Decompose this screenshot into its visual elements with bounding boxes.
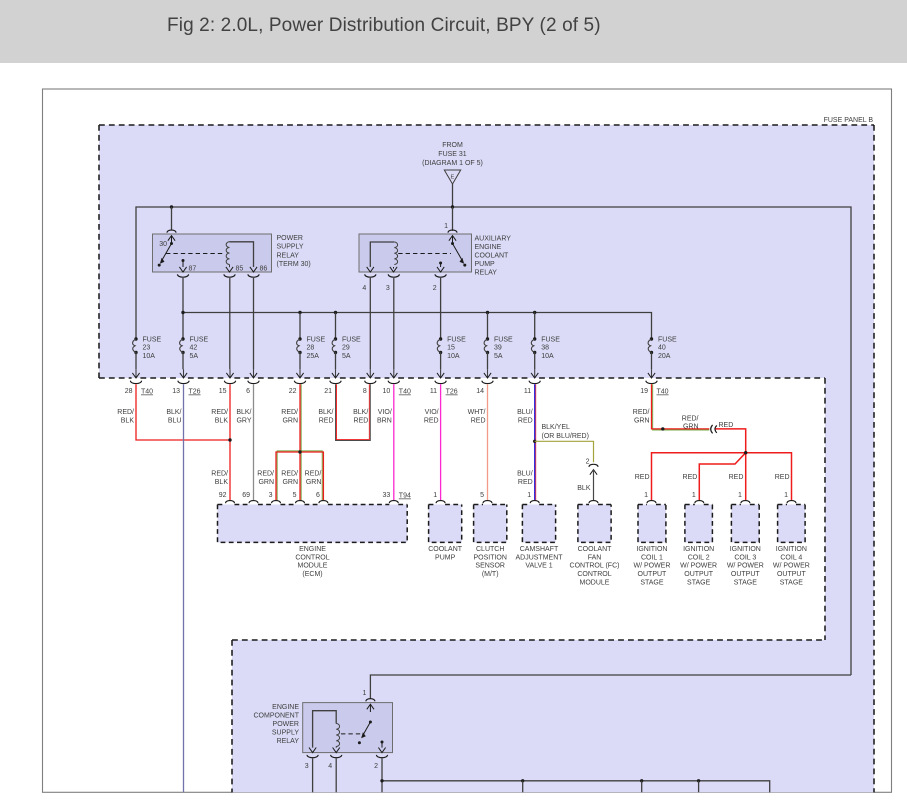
svg-text:BLU/: BLU/ xyxy=(517,409,533,416)
wire relay86 to exit 6 xyxy=(253,278,255,369)
wire BLK/RED pins 21-8 loop xyxy=(336,384,369,439)
svg-text:ENGINE: ENGINE xyxy=(272,704,299,711)
svg-text:11: 11 xyxy=(524,388,531,395)
node splice dot xyxy=(661,427,664,430)
svg-text:MODULE: MODULE xyxy=(580,580,610,587)
relay K1 dashed actuator link xyxy=(166,253,224,255)
svg-text:COIL 2: COIL 2 xyxy=(688,554,710,561)
wire VIO/RED pin 11 to coolant pump xyxy=(440,384,442,500)
svg-text:IGNITION: IGNITION xyxy=(776,546,807,553)
fuse F28 25A xyxy=(298,337,301,340)
svg-text:10A: 10A xyxy=(541,353,554,360)
svg-text:30: 30 xyxy=(159,241,167,248)
svg-text:GRN: GRN xyxy=(306,479,322,486)
node bus junction dot pin30 xyxy=(170,205,173,208)
connector exit arrow x300 xyxy=(299,369,301,377)
wire drop lower c xyxy=(698,781,700,792)
svg-text:8: 8 xyxy=(363,388,367,395)
ECM engine control module xyxy=(218,505,408,543)
svg-text:RED: RED xyxy=(518,417,533,424)
svg-text:RELAY: RELAY xyxy=(277,738,300,745)
connector exit arc x253.5 xyxy=(248,381,259,384)
connector exit arrow x183.5 xyxy=(183,369,185,377)
svg-text:BLK/: BLK/ xyxy=(353,409,368,416)
ignition coil 1 xyxy=(638,505,666,543)
wire BLK/GRY pin 6 to ECM 69 xyxy=(253,384,255,500)
svg-text:(DIAGRAM 1 OF 5): (DIAGRAM 1 OF 5) xyxy=(422,160,483,167)
relay K3 switch arm xyxy=(369,721,372,724)
svg-text:RED: RED xyxy=(635,474,650,481)
supply triangle E xyxy=(444,170,460,184)
svg-text:5: 5 xyxy=(480,492,484,499)
node junction 87 bus xyxy=(181,311,184,314)
svg-text:CLUTCH: CLUTCH xyxy=(476,546,504,553)
svg-text:RED/: RED/ xyxy=(682,416,699,423)
connector exit arc x651.5 xyxy=(646,381,657,384)
wire relay87 to fuse 42 xyxy=(182,278,184,339)
svg-text:OUTPUT: OUTPUT xyxy=(638,571,668,578)
relay K1 pin 30 connector xyxy=(167,230,176,233)
wire drop lower b xyxy=(641,781,643,792)
wire bus to lower relay xyxy=(370,675,851,699)
svg-text:20A: 20A xyxy=(658,353,671,360)
svg-text:5A: 5A xyxy=(190,353,199,360)
svg-text:42: 42 xyxy=(190,345,198,352)
svg-text:BLU/: BLU/ xyxy=(517,471,533,478)
wire fuse F28 to panel edge xyxy=(299,353,301,370)
wire RED to distribution node xyxy=(716,429,746,453)
svg-text:5: 5 xyxy=(293,492,297,499)
svg-text:STAGE: STAGE xyxy=(640,580,664,587)
svg-text:BLK: BLK xyxy=(577,485,591,492)
wire triangle to bus xyxy=(452,184,454,207)
svg-text:RED/: RED/ xyxy=(211,471,228,478)
svg-text:GRN: GRN xyxy=(282,417,298,424)
svg-text:39: 39 xyxy=(494,345,502,352)
svg-text:RED: RED xyxy=(424,417,439,424)
coolant pump module xyxy=(429,505,462,543)
svg-text:5A: 5A xyxy=(342,353,351,360)
svg-text:10A: 10A xyxy=(143,353,156,360)
wire drop fuse 28 xyxy=(299,313,301,340)
svg-text:85: 85 xyxy=(236,266,244,273)
wire RED/BLK pin 15 to ECM 92 xyxy=(229,384,231,500)
relay K1 pin 85 arrow xyxy=(229,265,231,268)
relay K1 pin 87 connector xyxy=(177,274,188,277)
svg-text:SUPPLY: SUPPLY xyxy=(277,244,304,251)
svg-text:POSITION: POSITION xyxy=(473,554,506,561)
svg-text:11: 11 xyxy=(430,388,437,395)
wire fuse F15 to panel edge xyxy=(440,353,442,370)
svg-text:RED: RED xyxy=(719,422,734,429)
wire relay K2 pin2 to fuse 15 xyxy=(440,278,442,339)
svg-text:1: 1 xyxy=(738,492,742,499)
svg-text:IGNITION: IGNITION xyxy=(636,546,667,553)
wire RED to ignition coil 1 xyxy=(652,453,746,501)
svg-text:3: 3 xyxy=(305,763,309,770)
svg-text:STAGE: STAGE xyxy=(687,580,711,587)
svg-text:FROM: FROM xyxy=(442,142,463,149)
svg-text:SUPPLY: SUPPLY xyxy=(272,730,299,737)
svg-text:AUXILIARY: AUXILIARY xyxy=(475,235,512,242)
svg-text:FUSE 31: FUSE 31 xyxy=(438,151,467,158)
relay K1 coil xyxy=(226,242,229,265)
svg-text:IGNITION: IGNITION xyxy=(730,546,761,553)
svg-text:Fig 2: 2.0L, Power Distributio: Fig 2: 2.0L, Power Distribution Circuit,… xyxy=(167,15,601,36)
connector exit arc x487.5 xyxy=(482,381,493,384)
svg-text:COMPONENT: COMPONENT xyxy=(254,712,300,719)
svg-text:GRN: GRN xyxy=(282,479,298,486)
wire drop lower a xyxy=(522,781,524,792)
relay K2 coil top wire to pin 4 xyxy=(370,242,394,267)
relay K2 aux engine coolant pump relay box xyxy=(359,234,472,272)
connector exit arc x393.8 xyxy=(388,381,399,384)
svg-text:CONTROL: CONTROL xyxy=(295,554,329,561)
wire fuse F38 to panel edge xyxy=(534,353,536,370)
svg-text:T26: T26 xyxy=(446,389,458,396)
relay K3 pin 2 stub xyxy=(381,741,384,744)
wire RED/BLK pin 28 xyxy=(136,384,229,440)
node junction lower bus b xyxy=(640,779,643,782)
svg-text:5A: 5A xyxy=(494,353,503,360)
wire fuse F23 to panel edge xyxy=(135,353,137,370)
node junction RED/GRN splice xyxy=(298,450,301,453)
svg-text:BLK: BLK xyxy=(215,417,229,424)
connector exit arc x230 xyxy=(224,381,235,384)
svg-text:4: 4 xyxy=(328,763,332,770)
wire WHT/RED pin 14 to clutch sensor xyxy=(487,384,489,500)
header bar xyxy=(0,0,907,63)
svg-text:GRY: GRY xyxy=(236,417,251,424)
relay K2 pin 2 stub xyxy=(439,262,442,265)
svg-text:33: 33 xyxy=(383,492,391,499)
relay K2 switch arm xyxy=(451,242,454,245)
svg-text:COOLANT: COOLANT xyxy=(428,546,463,553)
svg-text:19: 19 xyxy=(640,388,648,395)
svg-text:COIL 3: COIL 3 xyxy=(734,554,756,561)
svg-text:BLK: BLK xyxy=(215,479,229,486)
fuse F23 10A xyxy=(134,337,137,340)
svg-text:RED/: RED/ xyxy=(257,471,274,478)
relay K2 pin 4 arrow xyxy=(367,267,374,272)
svg-text:VIO/: VIO/ xyxy=(425,409,439,416)
relay K3 pin 2 connector xyxy=(376,755,387,758)
svg-text:W/ POWER: W/ POWER xyxy=(773,563,810,570)
wire K3 pin 4 down xyxy=(335,759,337,793)
relay K1 pin 86 arrow xyxy=(250,267,257,272)
svg-text:BLK: BLK xyxy=(121,417,135,424)
svg-text:COOLANT: COOLANT xyxy=(578,546,613,553)
fuse panel B dashed outline left xyxy=(98,125,100,378)
svg-text:BLK/YEL: BLK/YEL xyxy=(542,424,571,431)
node junction RED/BLK xyxy=(228,438,231,441)
svg-text:GRN: GRN xyxy=(258,479,274,486)
wire RED to ignition coil 3 xyxy=(745,453,747,501)
svg-text:FUSE: FUSE xyxy=(658,337,677,344)
svg-text:RED: RED xyxy=(471,417,486,424)
svg-text:40: 40 xyxy=(658,345,666,352)
relay K2 pin 4 connector xyxy=(365,274,376,277)
svg-text:RELAY: RELAY xyxy=(475,270,498,277)
svg-text:10A: 10A xyxy=(447,353,460,360)
relay K3 coil xyxy=(336,724,339,747)
svg-text:1: 1 xyxy=(644,492,648,499)
connector exit arc x370.3 xyxy=(365,381,376,384)
connector exit arc x136 xyxy=(130,381,141,384)
svg-text:OUTPUT: OUTPUT xyxy=(684,571,714,578)
connector exit arrow x534.7 xyxy=(534,369,536,377)
svg-text:FUSE: FUSE xyxy=(342,337,361,344)
lower panel dashed top edge xyxy=(232,639,825,641)
relay K3 pin 3 arrow xyxy=(309,748,316,753)
svg-text:3: 3 xyxy=(269,492,273,499)
svg-text:COOLANT: COOLANT xyxy=(475,253,510,260)
wire RED/GRN branch to ECM 3,5,6 xyxy=(277,451,322,500)
relay K1 coil top wire to pin 86 xyxy=(230,242,254,267)
node junction fuse 28 xyxy=(298,311,301,314)
fuse F40 20A xyxy=(650,337,653,340)
wire RED/GRN to ECM 5 xyxy=(300,453,302,500)
svg-text:GRN: GRN xyxy=(634,417,650,424)
svg-text:T94: T94 xyxy=(399,493,411,500)
svg-text:CONTROL: CONTROL xyxy=(577,571,611,578)
svg-text:OUTPUT: OUTPUT xyxy=(731,571,761,578)
svg-text:15: 15 xyxy=(219,388,227,395)
svg-text:14: 14 xyxy=(476,388,484,395)
svg-text:STAGE: STAGE xyxy=(734,580,758,587)
svg-text:BLK/: BLK/ xyxy=(236,409,251,416)
svg-text:W/ POWER: W/ POWER xyxy=(633,563,670,570)
svg-text:ENGINE: ENGINE xyxy=(299,546,326,553)
wire drop fuse 29 xyxy=(335,313,337,340)
svg-text:92: 92 xyxy=(219,492,227,499)
fuse panel B fill xyxy=(99,125,874,792)
relay K1 pin 87 stub xyxy=(182,259,185,262)
svg-text:E: E xyxy=(450,175,454,181)
relay K3 pin 4 arrow xyxy=(335,747,337,748)
svg-text:3: 3 xyxy=(386,285,390,292)
bus wire fuse feed xyxy=(183,313,652,340)
fuse F29 5A xyxy=(334,337,337,340)
svg-text:FAN: FAN xyxy=(588,554,602,561)
svg-text:38: 38 xyxy=(541,345,549,352)
svg-text:1: 1 xyxy=(433,492,437,499)
fuse F39 5A xyxy=(486,337,489,340)
svg-text:VIO/: VIO/ xyxy=(378,409,392,416)
svg-text:VALVE 1: VALVE 1 xyxy=(525,563,552,570)
svg-text:IGNITION: IGNITION xyxy=(683,546,714,553)
relay K1 switch arm xyxy=(170,242,173,245)
ignition coil 4 xyxy=(778,505,806,543)
svg-text:FUSE: FUSE xyxy=(143,337,162,344)
relay K3 engine component power supply relay box xyxy=(303,703,393,753)
wire relay K2 pin3 to exit 10 xyxy=(393,278,395,369)
svg-text:RED/: RED/ xyxy=(305,471,322,478)
wire BLK/YEL branch xyxy=(535,441,594,462)
svg-text:W/ POWER: W/ POWER xyxy=(727,563,764,570)
svg-text:FUSE PANEL B: FUSE PANEL B xyxy=(824,117,874,124)
bus wire from fuse 31 xyxy=(136,207,851,675)
node junction lower bus pin2 xyxy=(380,779,383,782)
fuse panel B dashed outline right xyxy=(873,125,875,792)
svg-text:SENSOR: SENSOR xyxy=(475,563,505,570)
svg-text:POWER: POWER xyxy=(277,235,303,242)
svg-text:(M/T): (M/T) xyxy=(482,571,499,578)
svg-text:RED/: RED/ xyxy=(633,409,650,416)
svg-text:28: 28 xyxy=(125,388,133,395)
svg-text:28: 28 xyxy=(307,345,315,352)
svg-text:PUMP: PUMP xyxy=(435,554,456,561)
svg-text:T40: T40 xyxy=(141,389,153,396)
svg-text:21: 21 xyxy=(324,388,332,395)
svg-text:(TERM 30): (TERM 30) xyxy=(277,261,311,268)
svg-text:RED/: RED/ xyxy=(281,409,298,416)
svg-text:1: 1 xyxy=(527,492,531,499)
node RED distribution dot xyxy=(744,451,747,454)
node junction fuse 29 xyxy=(334,311,337,314)
relay K1 pin 85 connector xyxy=(224,274,235,277)
relay K2 coil xyxy=(394,242,397,265)
wire fuse F39 to panel edge xyxy=(487,353,489,370)
node junction lower bus a xyxy=(521,779,524,782)
wire RED/GRN pin 22 xyxy=(300,384,302,452)
relay K2 pin 3 connector xyxy=(388,274,399,277)
fuse panel B dashed bottom edge with connector gaps xyxy=(99,377,825,379)
svg-text:POWER: POWER xyxy=(273,721,299,728)
relay K3 pin 3 connector xyxy=(307,755,318,758)
wire drop fuse 39 xyxy=(487,313,489,340)
wire bus drop to power supply relay pin 30 xyxy=(171,207,173,230)
relay K2 dashed actuator link xyxy=(398,253,451,255)
svg-text:RELAY: RELAY xyxy=(277,252,300,259)
wire BLU/RED pin 11 to camshaft valve xyxy=(535,384,537,500)
svg-text:2: 2 xyxy=(586,459,590,466)
svg-text:BLK/: BLK/ xyxy=(318,409,333,416)
svg-text:RED: RED xyxy=(518,479,533,486)
svg-text:T26: T26 xyxy=(189,389,201,396)
wire drop fuse 38 xyxy=(534,313,536,340)
wire relay K2 pin4 to exit 8 xyxy=(369,278,371,369)
relay K1 pin 86 connector xyxy=(248,274,259,277)
connector exit arc x300 xyxy=(294,381,305,384)
svg-text:87: 87 xyxy=(189,266,197,273)
svg-text:STAGE: STAGE xyxy=(780,580,804,587)
fuse panel B dashed outline top xyxy=(99,124,874,126)
svg-text:1: 1 xyxy=(444,223,448,230)
svg-text:RED: RED xyxy=(775,474,790,481)
svg-text:COIL 1: COIL 1 xyxy=(641,554,663,561)
clutch position sensor module xyxy=(474,505,507,543)
svg-text:6: 6 xyxy=(246,388,250,395)
svg-text:RED: RED xyxy=(354,417,369,424)
wire RED/GRN pin 19 xyxy=(653,384,710,430)
connector exit arrow x487.5 xyxy=(487,369,489,377)
svg-text:RED: RED xyxy=(319,417,334,424)
relay K3 coil top wire to pin 3 xyxy=(313,711,337,748)
connector exit arrow x253.5 xyxy=(253,369,255,377)
svg-text:T40: T40 xyxy=(399,389,411,396)
coolant fan control module xyxy=(578,505,611,543)
svg-text:23: 23 xyxy=(143,345,151,352)
relay K2 pin 3 arrow xyxy=(393,267,395,269)
connector exit arrow x393.8 xyxy=(393,369,395,377)
wire VIO/BRN pin 10 to ECM 33 xyxy=(393,384,395,500)
relay K1 power supply relay box xyxy=(153,234,272,272)
svg-text:22: 22 xyxy=(289,388,297,395)
svg-text:ADJUSTMENT: ADJUSTMENT xyxy=(515,554,563,561)
connector exit arrow x335.5 xyxy=(335,369,337,377)
svg-text:W/ POWER: W/ POWER xyxy=(680,563,717,570)
svg-text:1: 1 xyxy=(362,690,366,697)
wire fuse F29 to panel edge xyxy=(335,353,337,370)
node junction BLU/RED xyxy=(533,440,536,443)
svg-text:GRN: GRN xyxy=(683,423,699,430)
bus wire lower distribution xyxy=(382,781,770,792)
node junction fuse 39 xyxy=(486,311,489,314)
wire RED to ignition coil 2 xyxy=(699,453,745,501)
wire relay85 to exit 15 xyxy=(229,278,231,369)
connector strip dashed edge xyxy=(824,378,826,640)
svg-text:FUSE: FUSE xyxy=(447,337,466,344)
connector exit arrow x651.5 xyxy=(651,369,653,377)
node junction lower bus c xyxy=(697,779,700,782)
svg-text:RED/: RED/ xyxy=(117,409,134,416)
wire K3 pin 2 down xyxy=(381,759,383,793)
svg-text:BLK/: BLK/ xyxy=(166,409,181,416)
connector exit arc x183.5 xyxy=(178,381,189,384)
connector exit arrow x440.6 xyxy=(440,369,442,377)
connector exit arrow x230 xyxy=(229,369,231,377)
connector exit arrow x370.3 xyxy=(369,369,371,377)
camshaft adjustment valve module xyxy=(522,505,555,543)
fuse F15 10A xyxy=(439,337,442,340)
wire BLK/BLU pin 13 xyxy=(183,384,185,792)
svg-text:CAMSHAFT: CAMSHAFT xyxy=(520,546,559,553)
svg-text:RED/: RED/ xyxy=(211,409,228,416)
svg-text:RED: RED xyxy=(683,474,698,481)
relay K2 pin 2 connector xyxy=(435,274,446,277)
svg-text:BLU: BLU xyxy=(168,417,182,424)
connector exit arc x440.6 xyxy=(435,381,446,384)
svg-text:29: 29 xyxy=(342,345,350,352)
svg-text:WHT/: WHT/ xyxy=(468,409,486,416)
ignition coil 3 xyxy=(731,505,759,543)
relay K3 dashed actuator link xyxy=(341,733,364,735)
wire RED to ignition coil 4 xyxy=(746,453,792,501)
connector exit arc x534.7 xyxy=(529,381,540,384)
lower panel dashed left edge xyxy=(231,640,233,792)
svg-text:OUTPUT: OUTPUT xyxy=(777,571,807,578)
connector exit arrow x136 xyxy=(135,369,137,377)
svg-text:4: 4 xyxy=(362,285,366,292)
wire BLK to coolant fan module xyxy=(593,470,595,501)
svg-text:PUMP: PUMP xyxy=(475,261,496,268)
svg-text:FUSE: FUSE xyxy=(190,337,209,344)
svg-text:(ECM): (ECM) xyxy=(302,571,322,578)
fuse F38 10A xyxy=(533,337,536,340)
svg-text:2: 2 xyxy=(374,763,378,770)
node bus junction dot aux relay xyxy=(451,205,454,208)
fuse F42 5A xyxy=(181,337,184,340)
svg-text:ENGINE: ENGINE xyxy=(475,244,502,251)
svg-text:2: 2 xyxy=(433,285,437,292)
svg-text:COIL 4: COIL 4 xyxy=(780,554,802,561)
svg-text:1: 1 xyxy=(692,492,696,499)
svg-text:15: 15 xyxy=(447,345,455,352)
svg-text:(OR BLU/RED): (OR BLU/RED) xyxy=(542,433,589,440)
svg-text:BRN: BRN xyxy=(377,417,392,424)
svg-text:69: 69 xyxy=(242,492,250,499)
